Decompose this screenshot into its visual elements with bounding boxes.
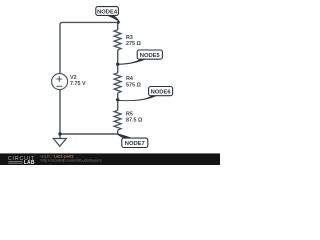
resistor R4 [114, 73, 141, 93]
svg-text:NODE7: NODE7 [125, 141, 145, 147]
node NODE4 flag [96, 7, 121, 24]
svg-text:NODE5: NODE5 [140, 53, 161, 59]
junction dot NODE5 [116, 62, 119, 65]
footer logo CIRCUIT LAB [8, 156, 35, 166]
svg-text:275 Ω: 275 Ω [126, 41, 141, 47]
svg-text:R3: R3 [126, 35, 133, 41]
voltage source V2 [52, 74, 86, 90]
svg-text:NODE6: NODE6 [151, 90, 172, 96]
node NODE7 flag [117, 133, 148, 147]
svg-text:575 Ω: 575 Ω [126, 82, 141, 88]
wire: R4 bottom to R5 top [117, 93, 119, 110]
wire: top run (R3 top up, across, down left side to V2) [60, 22, 118, 73]
svg-text:87.5 Ω: 87.5 Ω [126, 118, 143, 124]
footer watermark bar [0, 153, 220, 165]
svg-text:NODE4: NODE4 [97, 9, 118, 15]
resistor R5 [114, 110, 143, 130]
svg-text:7.75 V: 7.75 V [70, 81, 86, 87]
ground [53, 134, 66, 146]
node NODE5 flag [118, 50, 163, 65]
junction dot NODE6 [116, 98, 119, 101]
wire: bottom run (V2 bottom down, across, up to R5 bottom) [60, 90, 118, 134]
wire: R3 bottom to R4 top [117, 50, 119, 73]
node NODE6 flag [118, 87, 173, 102]
svg-text:http://circuitlab.com/c6fuudu2: http://circuitlab.com/c6fuudu2eyue3 [41, 158, 102, 163]
svg-text:LAB: LAB [24, 160, 35, 165]
resistor R3 [114, 30, 141, 50]
svg-text:R4: R4 [126, 76, 133, 82]
junction dot at ground tee [58, 132, 61, 135]
